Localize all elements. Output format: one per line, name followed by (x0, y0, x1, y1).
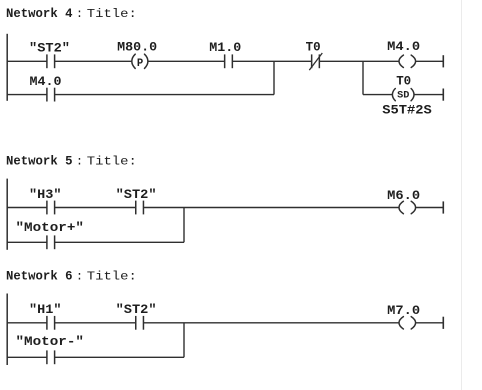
wire "Motor+" contact to node C (55, 241, 184, 243)
svg-text:"Motor-": "Motor-" (16, 334, 85, 349)
wire rail to contact "Motor-" (7, 356, 47, 358)
wire "ST2" to M80.0 coil (55, 60, 132, 62)
contact "Motor+" (NO) (47, 235, 55, 249)
wire "H3" to "ST2" (55, 207, 136, 209)
wire rail to contact "H3" (7, 207, 47, 209)
wire rail to contact "H1" (7, 322, 47, 324)
network 4 title (6, 7, 137, 21)
left power rail (network 5) (6, 179, 8, 250)
svg-text:Title:: Title: (87, 7, 137, 21)
svg-text:"Motor+": "Motor+" (16, 220, 85, 235)
contact T0 (NC) (309, 53, 322, 70)
svg-text:T0: T0 (396, 74, 411, 89)
svg-text:"H1": "H1" (29, 302, 62, 317)
svg-text::: : (76, 7, 83, 21)
contact "ST2" (NO) (47, 54, 55, 68)
svg-text::: : (76, 270, 83, 284)
svg-text:M4.0: M4.0 (387, 39, 420, 54)
contact "H1" (NO) (47, 316, 55, 330)
timer coil T0 (SD) (392, 89, 414, 101)
branch wire down to "Motor+" rung (node C) (183, 208, 185, 243)
left power rail (network 6) (6, 294, 8, 366)
svg-text:"ST2": "ST2" (116, 187, 157, 202)
branch wire down to T0 (SD) coil (node B) (362, 61, 364, 94)
wire rail to contact M4.0 (7, 94, 47, 96)
wire coil M6.0 to right rail (416, 207, 444, 209)
wire (P) to contact M1.0 (148, 60, 224, 62)
svg-text:T0: T0 (306, 40, 321, 55)
wire rail to contact "ST2" (7, 60, 47, 62)
wire "ST2" to coil M7.0 (143, 322, 399, 324)
svg-text:M4.0: M4.0 (30, 74, 62, 89)
contact "ST2" (NO, network 5) (136, 201, 144, 215)
contact M1.0 (NO) (225, 54, 233, 68)
contact "ST2" (NO, network 6) (136, 316, 144, 330)
wire "Motor-" contact to node D (55, 356, 184, 358)
svg-text:SD: SD (397, 91, 409, 102)
contact M4.0 (NO) (47, 88, 55, 102)
right rail terminal (rung T0 SD) (442, 89, 444, 101)
coil M7.0 ( ) (399, 317, 416, 329)
right rail terminal (rung M4.0) (442, 55, 444, 67)
network 6 title (6, 270, 137, 284)
branch wire down to "Motor-" rung (node D) (183, 323, 185, 358)
contact "H3" (NO) (47, 201, 55, 215)
svg-text:"ST2": "ST2" (116, 302, 157, 317)
svg-text:Title:: Title: (87, 270, 137, 284)
branch wire down to M4.0 rung (node A) (273, 61, 275, 94)
wire M1.0 to contact T0 (232, 60, 311, 62)
svg-text::: : (76, 154, 83, 168)
right rail terminal (rung M6.0) (442, 201, 444, 213)
svg-text:"H3": "H3" (29, 187, 62, 202)
wire M4.0 contact to node A (55, 94, 274, 96)
wire "H1" to "ST2" (55, 322, 136, 324)
svg-text:Network 5: Network 5 (6, 154, 73, 168)
left power rail (network 4) (6, 34, 8, 101)
svg-text:M7.0: M7.0 (387, 303, 420, 318)
wire node B to coil T0 (SD) (363, 94, 393, 96)
wire coil M4.0 to right rail (416, 60, 444, 62)
svg-text:"ST2": "ST2" (29, 41, 70, 56)
wire T0 to coil M4.0 (319, 60, 399, 62)
svg-text:S5T#2S: S5T#2S (382, 103, 432, 118)
svg-text:Network 4: Network 4 (6, 7, 73, 21)
network 5 title (6, 154, 137, 168)
svg-text:P: P (137, 58, 143, 70)
coil M80.0 (P) positive edge (132, 54, 148, 68)
coil M4.0 ( ) (399, 55, 416, 67)
right rail terminal (rung M7.0) (442, 317, 444, 329)
wire coil M7.0 to right rail (416, 322, 444, 324)
wire (SD) to right rail (414, 94, 443, 96)
svg-text:Title:: Title: (87, 154, 137, 168)
coil M6.0 ( ) (399, 201, 416, 213)
svg-text:M1.0: M1.0 (209, 40, 241, 55)
svg-text:Network 6: Network 6 (6, 270, 73, 284)
wire rail to contact "Motor+" (7, 241, 47, 243)
wire "ST2" to coil M6.0 (143, 207, 399, 209)
contact "Motor-" (NO) (47, 350, 55, 364)
svg-text:M80.0: M80.0 (117, 40, 157, 55)
